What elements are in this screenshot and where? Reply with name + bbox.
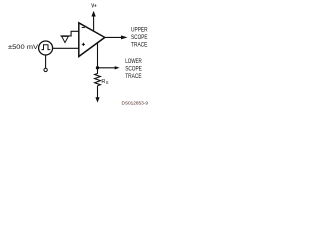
- pulse waveform glyph: [41, 45, 50, 50]
- svg-text:UPPER: UPPER: [131, 26, 148, 33]
- output wire: [105, 36, 121, 38]
- svg-text:LOWER: LOWER: [125, 58, 142, 65]
- minus input mark: [82, 26, 85, 28]
- V- arrowhead down: [95, 97, 99, 102]
- svg-text:±500 mV: ±500 mV: [8, 44, 39, 51]
- pulse generator V1: [39, 41, 53, 55]
- lower scope arrowhead: [115, 66, 120, 69]
- svg-text:SCOPE: SCOPE: [125, 66, 142, 73]
- op-amp comparator U1: [79, 23, 105, 57]
- junction node: [96, 66, 99, 69]
- output arrowhead to upper scope: [121, 35, 128, 39]
- wire resistor to V-: [97, 86, 99, 98]
- wire node to lower scope arrow: [98, 67, 116, 69]
- open terminal circle: [44, 68, 47, 71]
- svg-text:TRACE: TRACE: [131, 41, 147, 48]
- V+ supply wire: [93, 16, 95, 31]
- wire - input to ground flag: [60, 31, 78, 36]
- resistor RS zigzag: [95, 68, 101, 86]
- svg-text:DS012853-9: DS012853-9: [122, 101, 149, 106]
- svg-text:SCOPE: SCOPE: [131, 34, 148, 41]
- ground symbol (open triangle): [62, 36, 69, 42]
- terminal stub below source: [45, 55, 47, 68]
- wire source to + input: [53, 47, 79, 49]
- wire emitter pin down to node: [97, 43, 99, 68]
- svg-text:V+: V+: [91, 4, 96, 10]
- V+ arrowhead: [91, 11, 95, 17]
- svg-text:TRACE: TRACE: [125, 73, 141, 80]
- svg-text:S: S: [106, 80, 109, 85]
- plus input mark: [82, 43, 85, 46]
